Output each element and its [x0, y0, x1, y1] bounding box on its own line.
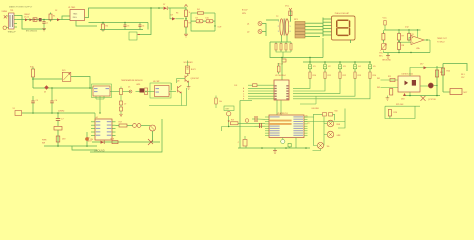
wire — [90, 119, 162, 152]
svg-text:SW: SW — [42, 142, 45, 144]
svg-text:VCC: VCC — [383, 18, 388, 20]
wire — [91, 121, 116, 123]
capacitor C6 — [50, 88, 58, 114]
resistor R20 — [323, 113, 327, 116]
svg-text:10k: 10k — [219, 101, 222, 103]
comparator U8 — [150, 81, 171, 98]
transistor Q7 — [421, 96, 436, 101]
wire — [323, 28, 332, 30]
button K1 — [308, 61, 315, 69]
resistor R23 — [390, 89, 393, 96]
wire — [442, 64, 444, 93]
wire — [265, 125, 269, 127]
wire — [293, 79, 310, 89]
wire — [305, 32, 308, 34]
svg-text:U8 CMP: U8 CMP — [153, 81, 160, 83]
ground — [382, 53, 391, 62]
node rail — [238, 147, 310, 149]
wire — [238, 122, 265, 124]
capacitor C9 — [260, 123, 262, 128]
node VCC rail — [89, 22, 149, 24]
wire — [265, 128, 269, 130]
svg-text:Q1: Q1 — [247, 24, 249, 26]
wire — [180, 93, 182, 106]
ground — [184, 34, 188, 37]
svg-text:LED-RED: LED-RED — [312, 108, 320, 110]
wire — [293, 79, 370, 99]
resistor R4 — [197, 9, 204, 14]
node — [43, 19, 45, 21]
ground — [386, 96, 390, 101]
svg-text:VCC: VCC — [285, 6, 290, 8]
node rail — [303, 57, 370, 62]
wire — [265, 134, 269, 136]
resistor R0 — [49, 13, 55, 22]
wire — [293, 79, 340, 94]
resistor R7 — [398, 32, 405, 42]
wire — [188, 61, 189, 87]
label DS1 — [335, 12, 350, 15]
resistor R26 — [388, 110, 397, 117]
svg-text:K3: K3 — [343, 66, 345, 68]
wire — [191, 12, 215, 14]
svg-text:TEMPERATURE SENSOR: TEMPERATURE SENSOR — [121, 79, 143, 82]
capacitor C5 — [31, 88, 39, 114]
button K4 — [353, 61, 360, 69]
wire — [417, 30, 419, 37]
wire — [304, 128, 308, 130]
wire — [381, 87, 399, 89]
transistor Q4 — [150, 125, 156, 142]
wire — [91, 128, 116, 130]
wire — [304, 118, 308, 120]
wire — [148, 91, 155, 93]
wire — [14, 16, 17, 28]
wire — [382, 40, 384, 53]
svg-text:3: 3 — [278, 31, 279, 33]
wire — [276, 42, 291, 44]
svg-text:Q7 BT136: Q7 BT136 — [428, 99, 436, 101]
wire — [76, 21, 97, 27]
wire — [32, 77, 34, 88]
svg-text:D7: D7 — [163, 4, 165, 6]
svg-text:C3: C3 — [127, 26, 129, 28]
label — [396, 104, 404, 106]
svg-text:SOUNDER: SOUNDER — [184, 62, 194, 64]
svg-text:D8: D8 — [171, 15, 173, 17]
resistor R32 — [145, 88, 148, 95]
regulator U1 7805 — [68, 7, 85, 20]
ground — [273, 148, 277, 153]
lamp X2 — [245, 119, 249, 123]
svg-text:VSINE: VSINE — [2, 11, 8, 13]
resistor R27 — [275, 44, 277, 51]
svg-text:D19: D19 — [62, 139, 65, 141]
capacitor C1 — [39, 18, 42, 21]
wire — [240, 101, 252, 149]
wire — [433, 85, 437, 86]
label — [377, 78, 380, 89]
svg-text:BR1 2W005G: BR1 2W005G — [26, 31, 38, 33]
resistor pack RP1 — [294, 19, 305, 38]
sensor module U7 — [92, 84, 112, 98]
svg-text:Q3 BC547: Q3 BC547 — [191, 78, 199, 80]
label — [169, 94, 171, 96]
svg-text:R1: R1 — [53, 16, 55, 18]
svg-text:D2: D2 — [55, 10, 57, 12]
node rail — [404, 95, 440, 97]
wire — [324, 117, 327, 146]
svg-text:MOT: MOT — [464, 92, 468, 94]
wire — [382, 30, 384, 34]
button K6 — [227, 112, 231, 127]
wire — [436, 66, 438, 96]
svg-text:1: 1 — [278, 21, 279, 23]
resistor R29 — [285, 44, 287, 51]
wire — [92, 119, 94, 136]
wire — [304, 109, 345, 129]
label V1 — [2, 10, 14, 13]
7-segment display DS1 — [332, 16, 356, 40]
svg-text:MAINS POWER SUPPLY: MAINS POWER SUPPLY — [9, 6, 33, 9]
wire — [420, 85, 428, 87]
wire — [243, 99, 274, 101]
wire bus — [308, 23, 323, 36]
svg-text:TO MCU: TO MCU — [437, 41, 445, 43]
svg-text:REG: REG — [73, 17, 77, 19]
wire — [391, 94, 404, 97]
wire — [443, 64, 467, 72]
svg-text:R17: R17 — [119, 121, 122, 123]
svg-text:U5 AT89C51: U5 AT89C51 — [277, 112, 288, 115]
svg-text:YEL: YEL — [327, 146, 330, 148]
wire — [96, 96, 104, 114]
IC U3 — [274, 75, 289, 100]
wire — [266, 19, 279, 21]
wire — [94, 113, 96, 119]
wire — [136, 91, 140, 93]
op-amp U2 — [411, 36, 424, 50]
svg-text:D5: D5 — [128, 86, 130, 88]
wire — [140, 7, 152, 34]
resistor R31 — [277, 63, 280, 74]
svg-text:D17: D17 — [420, 63, 423, 65]
inductor L4 — [54, 127, 62, 131]
LED D15 — [288, 144, 291, 149]
capacitor C4 — [139, 23, 145, 30]
svg-text:K4: K4 — [358, 66, 360, 68]
wire — [281, 57, 283, 80]
svg-text:5: 5 — [290, 26, 291, 28]
wire — [389, 116, 391, 119]
wire — [33, 78, 62, 80]
node rail — [22, 112, 95, 114]
wire — [169, 91, 176, 93]
capacitor C13 — [120, 104, 127, 111]
wire — [304, 130, 308, 132]
diode D21 — [277, 59, 286, 66]
svg-text:2: 2 — [278, 26, 279, 28]
wire — [265, 116, 269, 118]
wire — [323, 31, 332, 33]
wire — [265, 132, 269, 134]
ground — [42, 27, 46, 31]
capacitor C2 — [42, 20, 48, 28]
resistor R1 — [102, 22, 109, 32]
title text: power supply section heading — [9, 6, 33, 9]
power flag — [184, 5, 187, 11]
wire — [293, 79, 325, 92]
svg-text:R26: R26 — [394, 112, 397, 114]
label — [58, 111, 64, 113]
svg-text:TEMP OUT: TEMP OUT — [437, 38, 448, 40]
wire — [262, 24, 266, 37]
ground — [94, 149, 105, 152]
resistor R3 — [185, 18, 191, 29]
wire — [243, 96, 274, 98]
capacitor C12 — [120, 101, 123, 105]
resistor R15 — [234, 84, 274, 87]
diode D6 — [55, 10, 60, 21]
transformer T2 — [276, 16, 289, 36]
LED D20 — [85, 137, 93, 141]
pin numbers — [278, 21, 291, 33]
node — [270, 41, 291, 43]
wire — [398, 30, 400, 34]
wire — [424, 39, 430, 40]
resistor R19 — [231, 120, 239, 125]
wire — [408, 30, 410, 34]
wire — [304, 134, 308, 136]
wire — [276, 50, 291, 52]
ground — [119, 114, 123, 116]
svg-text:R11: R11 — [328, 75, 331, 77]
wire — [381, 79, 399, 81]
wire — [300, 97, 316, 105]
wire — [120, 95, 122, 115]
transistor Q8 — [177, 81, 181, 94]
capacitor C8 — [252, 116, 265, 122]
node rail — [92, 141, 160, 143]
svg-text:R34: R34 — [335, 111, 338, 113]
label bridge — [24, 14, 30, 18]
wire — [177, 79, 186, 84]
wire — [305, 26, 308, 28]
svg-text:Q8: Q8 — [177, 81, 179, 83]
button K2 — [323, 61, 330, 69]
wire — [265, 123, 269, 125]
transistor Q2 — [247, 30, 262, 34]
button K5 — [368, 61, 375, 69]
wire — [399, 41, 411, 43]
wire — [85, 8, 164, 18]
svg-text:K1: K1 — [313, 66, 315, 68]
diode D7 — [163, 4, 167, 10]
label D12 — [405, 27, 410, 29]
wire — [385, 105, 420, 107]
node rail — [44, 145, 97, 147]
svg-text:D18: D18 — [401, 98, 404, 100]
diode D5 — [33, 18, 37, 22]
label — [30, 67, 35, 69]
resistor R12 — [339, 69, 346, 79]
wire — [149, 83, 187, 106]
svg-text:TRAN-2P: TRAN-2P — [8, 31, 17, 34]
transformer TR1 — [9, 13, 15, 29]
wire — [91, 124, 116, 126]
svg-text:K2: K2 — [328, 66, 330, 68]
wire — [409, 92, 411, 96]
preset RV1 — [62, 70, 71, 82]
wire — [350, 40, 352, 43]
svg-text:P2: P2 — [308, 123, 310, 125]
optocoupler U6 — [398, 73, 420, 92]
wire — [293, 79, 355, 97]
wire — [282, 52, 284, 58]
diode D11 — [384, 21, 386, 31]
load M1 — [450, 89, 467, 95]
IC U4 — [95, 117, 112, 140]
diode D9 — [196, 17, 204, 23]
wire — [436, 66, 438, 68]
resistor R33 — [215, 96, 222, 109]
ground — [187, 87, 191, 90]
thermistor TH1 — [379, 44, 386, 58]
resistor R2 — [176, 9, 190, 19]
wire — [222, 126, 266, 131]
node — [33, 87, 91, 89]
svg-text:NTC: NTC — [379, 55, 384, 57]
wire — [90, 87, 93, 89]
wire — [314, 117, 318, 146]
wire — [304, 116, 308, 118]
svg-text:12MHz: 12MHz — [58, 111, 64, 113]
resistor R28 — [280, 44, 282, 51]
svg-text:R10: R10 — [313, 75, 316, 77]
label — [121, 79, 143, 82]
svg-text:U3 74LS164: U3 74LS164 — [275, 75, 286, 77]
svg-text:R18: R18 — [111, 138, 114, 140]
svg-text:C1: C1 — [46, 22, 48, 24]
diode D10 — [206, 17, 214, 23]
wire — [191, 20, 215, 22]
component D19 — [56, 136, 65, 142]
wire — [91, 131, 116, 133]
svg-text:U1 7805: U1 7805 — [68, 7, 75, 9]
svg-text:D9: D9 — [196, 17, 198, 19]
wire — [185, 27, 187, 34]
label — [383, 18, 388, 20]
clock circle — [281, 138, 285, 144]
AC mains source V1 — [3, 15, 7, 29]
ground — [100, 23, 148, 30]
wire — [214, 13, 222, 31]
wire — [429, 40, 431, 53]
wire — [289, 18, 291, 22]
label — [437, 38, 448, 44]
svg-text:Q2: Q2 — [247, 32, 249, 34]
svg-text:D1-D4: D1-D4 — [24, 16, 29, 18]
resistor R9 — [408, 32, 414, 42]
capacitor C11 — [120, 87, 123, 95]
wire — [323, 34, 332, 36]
wire — [295, 138, 297, 149]
svg-text:IN1: IN1 — [377, 78, 380, 80]
wire — [443, 91, 450, 93]
wire — [191, 28, 215, 31]
resistor R18 — [111, 138, 119, 143]
link box — [224, 106, 234, 111]
wire — [323, 18, 332, 20]
svg-text:R4: R4 — [189, 23, 191, 25]
svg-text:LM35: LM35 — [136, 84, 140, 86]
svg-text:K5: K5 — [373, 66, 375, 68]
resistor R21 — [388, 76, 395, 82]
lamp L3 — [317, 142, 329, 148]
wire — [265, 121, 269, 123]
svg-text:GROUND: GROUND — [382, 60, 391, 62]
resistor R24 — [441, 68, 450, 75]
MCU U5 — [269, 112, 310, 138]
lamp L2 — [327, 131, 341, 138]
svg-text:D10: D10 — [206, 17, 209, 19]
wire — [110, 91, 131, 93]
wire — [71, 77, 90, 89]
svg-text:R13: R13 — [358, 75, 361, 77]
wire — [91, 134, 116, 136]
wire — [245, 136, 246, 148]
diode D14 — [101, 140, 105, 144]
wire — [270, 38, 323, 58]
diode D17 — [420, 63, 427, 69]
label — [136, 84, 140, 86]
wire — [304, 114, 323, 117]
transistor Q1 — [242, 10, 262, 26]
wire — [305, 22, 308, 24]
wire — [72, 146, 97, 150]
node rail — [384, 29, 421, 30]
resistor R6 — [382, 32, 385, 42]
diode D18 — [401, 93, 406, 100]
svg-text:TH1: TH1 — [379, 53, 383, 55]
svg-text:R3: R3 — [176, 13, 178, 15]
lamp L1 — [327, 120, 341, 127]
resistor R10 — [309, 69, 316, 79]
zener D8 — [170, 8, 184, 20]
svg-text:R14: R14 — [373, 75, 376, 77]
svg-text:IN2: IN2 — [377, 87, 380, 89]
wire — [116, 125, 151, 127]
button K3 — [338, 61, 345, 69]
resistor R5 — [289, 11, 292, 16]
wire — [265, 130, 269, 132]
label dark — [8, 31, 38, 34]
wire — [190, 13, 192, 28]
wire — [304, 123, 308, 125]
wire — [304, 132, 308, 134]
wire — [86, 132, 88, 146]
wire — [333, 114, 335, 120]
diode D22 — [128, 86, 144, 93]
wire — [385, 106, 415, 118]
svg-text:BUZ1: BUZ1 — [191, 69, 196, 71]
resistor R30 — [290, 44, 292, 51]
svg-text:7SEG-COM-CAT: 7SEG-COM-CAT — [335, 12, 350, 15]
svg-text:RV1: RV1 — [62, 70, 65, 72]
wire — [17, 19, 70, 21]
svg-text:U6 MOC3021: U6 MOC3021 — [402, 73, 414, 75]
resistor R17 — [119, 121, 128, 127]
